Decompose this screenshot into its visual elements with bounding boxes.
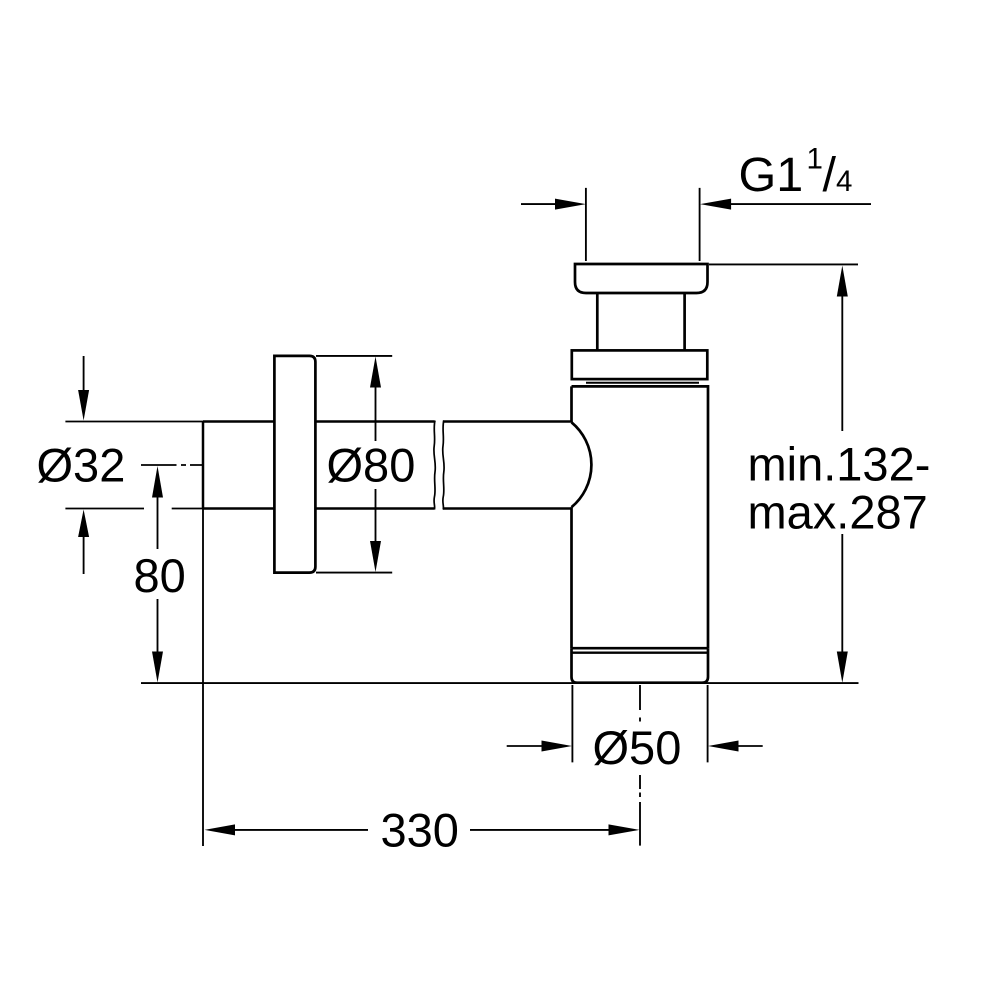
cup top seam [572,652,709,654]
G dim line left shaft [521,203,555,205]
o80 top arrowhead [370,357,381,388]
pipe left end edge [202,422,205,509]
80 dim shaft lower [157,599,159,652]
minmax top arrowhead [837,266,848,297]
o32 top extension line [65,421,203,423]
80 dim bottom arrowhead [152,652,163,683]
o32 top arrowhead [78,390,89,421]
cup centerline dash-dot [639,685,641,846]
o80 dim shaft lower [375,489,377,542]
o80 top extension line [316,355,392,357]
G dim right arrowhead [700,199,731,210]
svg-text:330: 330 [381,804,459,857]
bottom cup [572,648,709,683]
o50 left extension line [571,685,573,762]
o50 right arrow shaft [738,745,763,747]
neck below cap [597,293,684,350]
body cup outline [572,386,709,648]
svg-text:/: / [823,148,837,202]
svg-text:Ø32: Ø32 [37,439,126,492]
minmax top extension line [709,263,858,265]
svg-text:4: 4 [836,165,852,198]
o50 right arrowhead [708,741,739,752]
o32 bottom arrow shaft [83,536,85,574]
pipe break squiggle right [443,421,444,510]
G dim line right shaft [731,203,871,205]
o50 left arrowhead [542,741,573,752]
o32 bottom extension line [65,508,203,510]
o50 right extension line [707,685,709,762]
330 right arrowhead [609,824,640,835]
G dim left arrowhead [555,199,586,210]
pipe centerline dash-dot [141,464,202,466]
svg-text:1: 1 [807,143,823,176]
svg-text:Ø80: Ø80 [327,439,416,492]
330 dim line right segment [470,829,609,831]
o80 bottom extension line [316,572,392,574]
G dim extension line left [585,188,587,261]
minmax dim shaft lower [841,534,843,652]
top cap (G1 1/4 nut) [575,264,708,293]
pipe top line [203,420,572,423]
o50 left arrow shaft [507,745,542,747]
pipe bottom line [203,507,572,510]
minmax bottom arrowhead [837,652,848,683]
wall flange disc [274,356,315,573]
o32 bottom arrowhead [78,510,89,538]
80 dim shaft upper [157,497,159,549]
o80 bottom arrowhead [370,541,381,572]
baseline ground line [141,682,859,684]
svg-text:G1: G1 [739,148,804,202]
80 dim top arrowhead [152,466,163,498]
svg-text:min.132-: min.132- [748,438,931,491]
minmax dim shaft upper [841,296,843,431]
pipe-body bulge arc [572,422,592,507]
330 left arrowhead [205,824,236,835]
330 dim line left segment [234,829,368,831]
seam line under collar [586,382,699,384]
pipe left extension line down [202,509,204,847]
svg-text:80: 80 [134,549,186,602]
o32 top arrow shaft [83,356,85,391]
pipe break squiggle left [434,421,435,510]
o80 dim shaft upper [375,387,377,441]
svg-text:max.287: max.287 [748,486,928,539]
G dim extension line right [699,188,701,261]
collar ring [572,350,708,379]
svg-text:Ø50: Ø50 [593,721,682,774]
